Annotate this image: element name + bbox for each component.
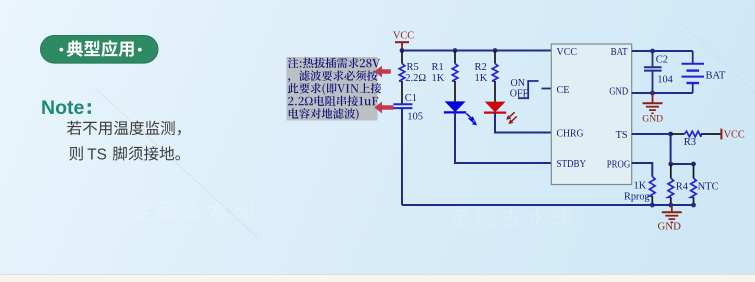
- svg-text:104: 104: [657, 74, 672, 85]
- svg-text:1K: 1K: [633, 181, 646, 192]
- wire BAT pin to battery: [632, 50, 693, 52]
- node: C2 top: [650, 49, 655, 54]
- resistor Rprog 1K: [650, 177, 656, 196]
- power symbol VCC (top): [395, 41, 409, 43]
- svg-text:C1: C1: [405, 93, 417, 104]
- wire: VCC rail to IC VCC pin: [402, 50, 551, 52]
- svg-text:BAT: BAT: [706, 71, 726, 82]
- wire GND pin to battery minus: [632, 92, 693, 94]
- note text line 1: [67, 121, 181, 136]
- svg-text:NTC: NTC: [698, 182, 719, 193]
- svg-text:2.2Ω: 2.2Ω: [405, 73, 426, 84]
- battery BAT: [692, 51, 694, 63]
- svg-text:R3: R3: [684, 137, 696, 148]
- note text line 2: [69, 146, 180, 160]
- capacitor C2 104: [652, 51, 654, 66]
- resistor R3: [671, 133, 685, 135]
- svg-text:BAT: BAT: [611, 47, 628, 58]
- node: rail-R5 junction: [400, 48, 405, 53]
- svg-text:C2: C2: [656, 55, 668, 66]
- callout arrow to R5: [374, 66, 391, 78]
- callout arrow to C1: [374, 102, 393, 114]
- wire: ground return rail: [402, 204, 694, 206]
- wire R1 to LED D1: [454, 81, 456, 102]
- note box about hot-plug filtering: [287, 57, 378, 121]
- svg-text:CHRG: CHRG: [557, 129, 584, 140]
- svg-text:R5: R5: [407, 62, 419, 73]
- svg-text:GND: GND: [642, 113, 663, 124]
- resistor R4: [670, 164, 672, 178]
- svg-text:TS: TS: [87, 146, 107, 163]
- svg-text:ON: ON: [511, 78, 525, 89]
- svg-text:105: 105: [407, 112, 423, 123]
- node: rail-R2 junction: [493, 48, 498, 53]
- ground (bottom): [671, 205, 673, 212]
- power tap VCC (right): [720, 129, 722, 140]
- svg-text:CE: CE: [557, 85, 570, 96]
- wire TS junction down: [670, 134, 672, 164]
- svg-text:STDBY: STDBY: [557, 159, 587, 170]
- wire TS pin: [632, 133, 671, 135]
- capacitor C1 105: [393, 103, 412, 105]
- node: GND junction: [650, 91, 655, 96]
- thermistor NTC: [693, 164, 695, 178]
- svg-text:1K: 1K: [475, 73, 488, 84]
- svg-text:GND: GND: [609, 86, 628, 97]
- IC charger U1: [551, 44, 631, 185]
- svg-text:Note: Note: [41, 97, 84, 119]
- wire LED D1 to STDBY: [455, 112, 551, 163]
- svg-text:1K: 1K: [432, 73, 445, 84]
- node: rail-R1 junction: [453, 48, 458, 53]
- resistor R1 1K: [454, 51, 456, 64]
- svg-text:Rprog: Rprog: [624, 191, 649, 202]
- svg-text:VCC: VCC: [724, 130, 745, 141]
- title badge 典型应用: [41, 36, 159, 64]
- resistor R2 1K: [494, 51, 496, 64]
- wire R5 to C1: [401, 81, 403, 104]
- node: TS junction: [668, 132, 673, 137]
- wire C1 to bottom rail: [401, 108, 403, 205]
- ground (top): [652, 93, 654, 103]
- svg-text:R4: R4: [676, 182, 689, 193]
- wire R4-NTC top: [671, 163, 694, 165]
- resistor R5 2.2ohm: [401, 51, 403, 64]
- LED D2 (red): [485, 102, 506, 113]
- wire to CE pin: [542, 88, 552, 90]
- wire LED D2 to CHRG: [495, 113, 551, 133]
- LED D1 (blue): [445, 101, 466, 112]
- svg-text:VCC: VCC: [557, 47, 578, 58]
- svg-text:R1: R1: [432, 62, 444, 73]
- svg-text:GND: GND: [658, 221, 682, 233]
- wire R2 to LED D2: [494, 81, 496, 102]
- wire PROG pin: [632, 163, 653, 177]
- svg-text:R2: R2: [475, 62, 487, 73]
- svg-text:PROG: PROG: [607, 159, 631, 170]
- svg-text:TS: TS: [616, 130, 628, 141]
- svg-text:VCC: VCC: [393, 31, 414, 42]
